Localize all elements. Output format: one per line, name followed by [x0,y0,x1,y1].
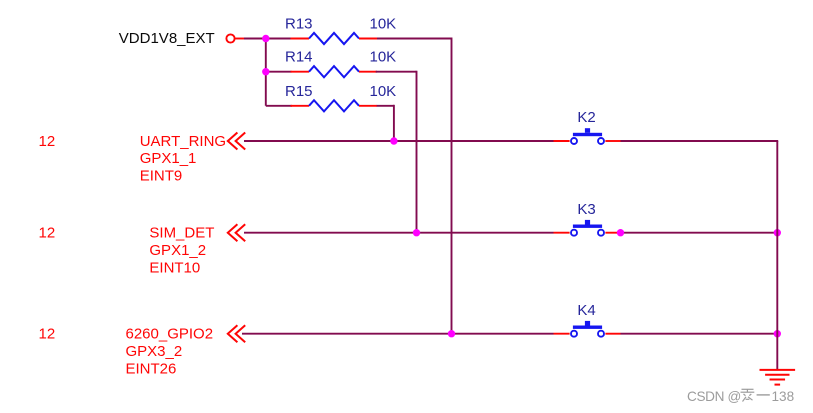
switch K3 left contact [571,230,577,236]
wire R14 right horizontal [376,71,417,73]
switch K4 left lead [554,333,570,335]
wire R13 to K4 row vertical [451,38,453,334]
switch K2 actuator [585,128,590,133]
switch K4 actuator [585,321,590,326]
junction at R14 branch [262,68,269,75]
resistor R14 body [309,66,359,77]
switch K4 bar [573,326,602,329]
port 6260_GPIO2 chevron 2 [236,325,246,342]
svg-text:12: 12 [39,133,56,150]
wire R15 to K2 row vertical [393,105,395,141]
svg-text:UART_RING: UART_RING [140,133,226,150]
svg-text:CSDN @: CSDN @ [687,389,741,404]
wire R15 right horizontal [377,105,394,107]
junction R14 joins SIM_DET [413,229,420,236]
resistor R15 body [309,100,359,111]
wire K4 to right rail [621,333,778,335]
svg-text:138: 138 [772,389,795,404]
switch K3 bar [573,225,602,228]
svg-text:EINT10: EINT10 [149,259,200,276]
svg-text:K2: K2 [577,109,595,126]
wire branch to R14 [266,71,292,73]
port UART_RING chevron 1 [228,133,238,150]
resistor R13 left lead [291,38,310,40]
junction R13 joins 6260_GPIO2 [448,330,455,337]
power pin stub [235,38,244,40]
resistor R15 right lead [359,105,377,107]
wire VDD branch vertical [265,38,267,106]
switch K3 actuator [585,220,590,225]
wire right rail vertical [776,141,778,370]
svg-text:12: 12 [39,326,56,343]
switch K3 right lead [605,232,620,234]
svg-text:R14: R14 [285,49,313,66]
svg-text:EINT26: EINT26 [126,360,177,377]
svg-text:SIM_DET: SIM_DET [149,225,214,242]
wire 6260_GPIO2 net [242,333,554,335]
svg-text:6260_GPIO2: 6260_GPIO2 [126,326,214,343]
resistor R15 left lead [291,105,310,107]
wire branch to R15 [266,105,292,107]
svg-text:GPX1_2: GPX1_2 [149,242,206,259]
resistor R14 left lead [291,71,310,73]
port 6260_GPIO2 chevron 1 [228,325,238,342]
switch K3 left lead [554,232,570,234]
svg-text:R13: R13 [285,16,313,33]
switch K2 left contact [571,138,577,144]
watermark glyph ling [741,389,755,401]
switch K4 left contact [571,331,577,337]
wire R14 to K3 row vertical [416,71,418,233]
svg-text:10K: 10K [370,49,397,66]
svg-text:K4: K4 [577,302,595,319]
junction at VDD branch [262,35,269,42]
svg-text:R15: R15 [285,83,313,100]
port SIM_DET chevron 2 [236,224,246,241]
switch K4 right lead [605,333,620,335]
svg-text:EINT9: EINT9 [140,168,183,185]
wire K3 to right rail [621,232,778,234]
wire K2 to right rail [621,140,779,142]
switch K2 right contact [598,138,604,144]
svg-text:GPX3_2: GPX3_2 [126,343,183,360]
port UART_RING chevron 2 [236,133,246,150]
svg-text:GPX1_1: GPX1_1 [140,150,197,167]
svg-text:10K: 10K [370,16,397,33]
switch K2 right lead [605,140,620,142]
power pin circle [226,34,234,42]
switch K4 right contact [598,331,604,337]
wire SIM_DET net [244,232,554,234]
svg-text:VDD1V8_EXT: VDD1V8_EXT [119,30,215,47]
wire UART_RING net [244,140,554,142]
svg-text:K3: K3 [577,201,595,218]
ground symbol [760,369,796,371]
switch K3 right contact [598,230,604,236]
wire VDD to R13 [244,38,291,40]
svg-text:10K: 10K [370,83,397,100]
junction R15 joins UART_RING [390,137,397,144]
svg-text:12: 12 [39,225,56,242]
switch K2 left lead [554,140,570,142]
resistor R13 body [309,33,359,44]
junction right rail row 2 [774,229,781,236]
resistor R14 right lead [359,71,377,73]
watermark glyph yi + hyphen [757,394,770,395]
wire R13 right horizontal [377,38,452,40]
port SIM_DET chevron 1 [228,224,238,241]
junction right rail row 3 [774,330,781,337]
switch K2 bar [573,133,602,136]
junction K3 right lead [617,229,624,236]
resistor R13 right lead [359,38,377,40]
